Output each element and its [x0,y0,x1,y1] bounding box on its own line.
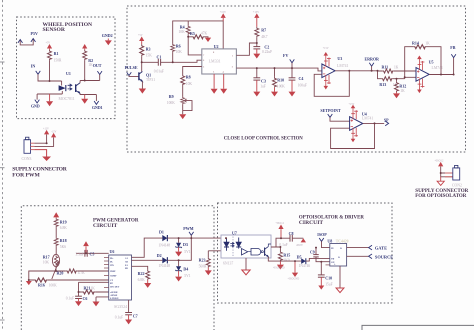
svg-text:C2: C2 [264,44,269,49]
svg-text:TIP31: TIP31 [146,78,155,82]
power +ISO12 [435,159,444,166]
zener D4 [175,260,191,281]
svg-text:R11: R11 [382,64,389,69]
resistor R12 [393,81,406,98]
svg-text:1K0: 1K0 [283,259,289,263]
ground open triangle [437,177,444,186]
resistor R20 [57,269,109,275]
svg-text:R8: R8 [186,74,191,79]
svg-text:R16: R16 [38,283,45,288]
svg-text:VIN: VIN [110,265,114,267]
svg-text:GND1: GND1 [92,106,103,110]
wire pot bottom junction [29,267,66,281]
svg-text:FV: FV [283,53,288,58]
svg-text:C6: C6 [83,296,88,301]
ground under C2 [253,49,260,59]
svg-text:1N4746: 1N4746 [299,264,311,268]
wire collector rail [80,60,100,82]
zener D3 [175,238,191,256]
svg-text:R23: R23 [199,258,206,263]
svg-text:0.1uF: 0.1uF [66,297,74,301]
top rail +15V left [173,21,224,49]
ground big red [42,157,51,162]
svg-text:MOC7811: MOC7811 [59,97,75,101]
svg-text:U7: U7 [232,231,237,236]
optocoupler U1 [59,71,81,101]
svg-text:U1: U1 [66,71,71,76]
svg-text:FOR OPTOISOLATOR: FOR OPTOISOLATOR [415,194,466,199]
svg-text:-12V: -12V [51,130,56,133]
page border [0,0,5,330]
capacitor C4 [289,68,307,96]
svg-text:R10: R10 [277,77,284,82]
svg-text:U6: U6 [110,249,115,254]
svg-text:10K: 10K [43,261,50,265]
svg-text:R9: R9 [169,94,174,99]
svg-text:LM741: LM741 [432,66,443,70]
title block corner [362,325,474,330]
resistor R16 [34,278,109,288]
svg-text:15K: 15K [146,54,153,58]
svg-text:R13: R13 [379,82,386,87]
svg-text:SENSOR: SENSOR [43,27,66,33]
node PULSE [125,65,138,76]
op-amp U4 [349,103,374,143]
svg-text:GATE: GATE [375,246,387,251]
svg-text:COMP: COMP [110,276,117,278]
power +5V above R1 [46,41,53,49]
svg-text:5V1: 5V1 [184,274,190,278]
svg-text:+ISOGND: +ISOGND [288,278,300,281]
svg-text:SOURCE: SOURCE [375,254,393,259]
power +12V [43,127,49,134]
svg-text:LM741: LM741 [337,64,348,68]
svg-text:CLOSE LOOP CONTROL SECTION: CLOSE LOOP CONTROL SECTION [224,136,303,142]
capacitor C9 [310,248,330,262]
svg-text:C1: C1 [157,54,162,59]
resistor R5 [190,31,207,39]
svg-text:TC4420: TC4420 [336,239,349,243]
capacitor C10 [318,262,333,290]
resistor R2 [83,50,93,67]
op-amp U5 [416,56,443,94]
svg-text:+15V: +15V [253,11,259,14]
wire R21 column [79,282,109,296]
ground +ISOGND under D5 row [288,261,300,281]
svg-text:SG3524: SG3524 [114,304,127,309]
node OUT [93,63,102,75]
svg-text:0.01uF: 0.01uF [154,70,164,74]
svg-text:FB: FB [450,45,455,50]
power -12V [51,130,56,137]
svg-text:R4: R4 [180,25,185,30]
resistor R7 [255,27,268,39]
wire pin2 to -12V [34,138,53,147]
optocoupler U7 6N137 [221,231,271,266]
power +ISO12 above C8 [275,222,284,238]
svg-text:OUT: OUT [93,63,102,68]
power +15V above R7 [253,11,260,27]
svg-text:CON2: CON2 [452,183,462,187]
svg-text:1uF: 1uF [260,84,266,88]
svg-text:+5V: +5V [46,41,51,44]
svg-text:3.3nF: 3.3nF [76,252,84,256]
transistor Q1 [139,72,155,82]
resistor R21 [82,285,95,294]
svg-text:150R: 150R [54,59,62,63]
svg-text:ISOP: ISOP [317,232,327,237]
ground red under LED [46,94,53,106]
ground open under U7 [242,258,250,275]
wire R3 to Q1 collector and C1 tap [129,56,158,76]
box: wheel position sensor [17,17,116,119]
node ERROR [365,56,380,71]
feedback wire U4 [331,123,385,148]
wire junction dots [28,36,455,293]
power +15V above U2 [220,11,226,21]
svg-text:R18: R18 [60,238,67,243]
svg-text:R20: R20 [57,270,64,275]
svg-text:U8: U8 [327,238,332,243]
connector CON2 [452,165,462,187]
ground open under U8 [336,266,344,293]
svg-text:1N4148: 1N4148 [159,243,171,247]
svg-text:SETPOINT: SETPOINT [320,108,341,113]
diode D1 [159,229,227,247]
resistor R10 [271,68,285,96]
resistor R22 [138,270,152,288]
capacitor C7 [115,300,138,324]
ground stub under U6 shutdown pin [93,297,109,307]
svg-text:C3: C3 [261,78,266,83]
wire U7 output to D5 row [268,257,301,261]
resistor R6 [171,44,183,55]
svg-text:ERROR: ERROR [365,56,380,61]
svg-text:IN-: IN- [110,262,113,264]
capacitor C2 [253,44,272,54]
svg-text:⊥: ⊥ [334,263,336,266]
capacitor C5 [76,250,109,257]
node SOURCE [369,254,394,259]
svg-text:+15V: +15V [349,103,355,106]
wire pin3 to ground [34,150,46,157]
svg-text:+SENSE: +SENSE [110,292,118,294]
resistor R4 [179,25,191,35]
svg-text:4.7K: 4.7K [78,271,85,275]
svg-text:D5: D5 [297,255,302,260]
svg-text:100K: 100K [277,84,285,88]
wire U6 outputs to diode rows [132,238,163,270]
svg-text:R14: R14 [412,41,419,46]
svg-text:S-TDWN: S-TDWN [110,298,119,300]
node ISOP [317,232,330,247]
svg-text:560R: 560R [199,265,207,269]
resistor R13 [378,71,405,87]
resistor R1 [48,50,62,63]
svg-text:GND2: GND2 [102,33,113,38]
svg-text:+ISOGND: +ISOGND [273,267,285,270]
svg-text:1N4148: 1N4148 [159,264,171,268]
resistor R18 [54,237,66,249]
svg-text:5V1: 5V1 [184,250,190,254]
svg-text:GND: GND [31,104,40,108]
ground red after R5 [205,38,211,42]
box: close loop control section [127,6,466,152]
resistor R14 [405,41,441,79]
svg-text:0.22uF: 0.22uF [262,50,272,54]
resistor R3 [140,44,152,57]
ground under Q1 [139,82,146,94]
svg-text:R22: R22 [138,271,145,276]
wire R18 to R17 [55,246,57,254]
svg-text:100uF: 100uF [298,83,307,87]
wire C1 to U2 pin2 [161,60,202,62]
svg-text:U5: U5 [429,59,434,64]
resistor R15 pull-up [273,251,290,270]
svg-text:1K: 1K [425,42,430,46]
resistor R19 [54,218,67,230]
svg-text:R7: R7 [261,28,266,33]
preset R9 [167,86,192,115]
IC U8 TC4420 [326,238,349,266]
svg-text:100K: 100K [49,284,57,288]
power +5V above R3 [138,34,144,44]
svg-text:PULSE: PULSE [125,65,138,70]
svg-text:LM331: LM331 [209,59,221,64]
connector CON3 [22,137,35,161]
grounds under U2 [211,74,228,94]
svg-text:1K: 1K [394,65,399,69]
power +5V above R2 [82,44,87,50]
power +12V above C5 [83,241,89,253]
power +12V above R19 [53,212,59,218]
svg-text:6N137: 6N137 [223,261,233,265]
node SP [384,118,389,126]
resistor R23 [199,251,226,275]
node PWM [183,226,193,238]
svg-text:C5: C5 [90,251,95,256]
ground red left [26,281,32,285]
wire emitter rail [80,94,96,101]
node FB [429,45,456,74]
svg-text:C10: C10 [325,276,332,281]
ground terminal GND1 [92,101,103,110]
svg-text:C7: C7 [133,313,138,318]
svg-text:R1: R1 [54,51,59,56]
node IN [31,63,41,74]
svg-text:450V: 450V [296,243,304,247]
box: pwm generator circuit [21,206,214,330]
svg-text:D4: D4 [183,267,188,272]
wire U8 to SOURCE [347,255,369,257]
wire R6 down to C1 rail [172,52,174,62]
svg-text:+ISO12: +ISO12 [275,222,284,225]
svg-text:O: O [338,257,340,259]
svg-text:D1: D1 [159,229,164,234]
svg-text:R19: R19 [60,219,67,224]
svg-text:R12: R12 [399,84,406,89]
ground terminal GND [31,100,40,109]
wire FV main rail [236,68,322,71]
svg-text:CIRCUIT: CIRCUIT [299,220,324,226]
svg-text:IN: IN [31,63,36,68]
wire R7 to U2 right pin [236,37,256,55]
svg-text:U2: U2 [214,44,219,49]
svg-text:P5V: P5V [31,31,38,36]
wire U8 to GATE [347,247,369,249]
svg-text:10K: 10K [179,30,186,34]
svg-text:OSC OUT: OSC OUT [110,287,120,289]
svg-text:U3: U3 [337,56,342,61]
svg-text:6.8K: 6.8K [60,226,67,230]
svg-text:R5: R5 [190,31,195,36]
svg-text:-SENSE: -SENSE [110,295,118,297]
svg-text:100K: 100K [167,101,175,105]
svg-text:R6: R6 [176,44,181,49]
power terminal P5V [18,31,38,45]
svg-text:LM741: LM741 [362,117,373,121]
svg-text:1K: 1K [400,89,405,93]
svg-text:FOR PWM: FOR PWM [12,173,40,179]
svg-text:CIRCUIT: CIRCUIT [93,223,118,229]
wire to connector [441,167,453,177]
svg-text:C8: C8 [289,231,294,236]
svg-text:+15V: +15V [323,47,329,50]
wire IN to LED anode [38,60,62,81]
svg-text:+ISO12: +ISO12 [435,159,444,162]
svg-text:4K7: 4K7 [261,35,267,39]
ground red under emitter [81,95,88,104]
capacitor C8 [271,231,306,251]
svg-text:D3: D3 [183,242,188,247]
svg-text:EA: EA [125,264,128,267]
svg-text:15uF: 15uF [325,283,332,287]
svg-text:R21: R21 [84,285,91,290]
svg-text:VREF: VREF [110,271,116,273]
svg-text:R17: R17 [43,254,50,259]
svg-text:6.8K: 6.8K [138,278,145,282]
wire cathode to GND [37,94,62,100]
op-amp U3 [322,47,349,89]
svg-text:CA: CA [125,257,129,260]
capacitor C1 [154,54,164,73]
svg-text:R15: R15 [283,252,290,257]
svg-text:10K: 10K [176,50,183,54]
svg-text:C9: C9 [310,251,315,255]
wire R4 R5 junction to U2 pin1 [188,35,208,55]
svg-text:IN: IN [331,248,334,250]
feedback wire U3 [314,71,377,97]
resistor R11 [378,64,417,73]
svg-text:C4: C4 [299,76,304,81]
svg-text:5K6: 5K6 [60,245,66,249]
svg-text:10K: 10K [186,82,193,86]
node FV [283,53,294,68]
capacitor C6 [66,296,88,306]
svg-text:1K: 1K [91,286,96,290]
resistor R8 [181,67,202,86]
wire R19 to R18 [55,227,57,237]
node SETPOINT [320,108,349,121]
diode D5 [297,255,330,269]
svg-text:VD: VD [331,259,335,261]
wire pin1 to +12V [34,135,46,144]
svg-text:PWM: PWM [183,226,193,231]
svg-text:+15V: +15V [220,11,226,14]
svg-text:+5V: +5V [138,34,143,37]
IC U2 LM331 [202,44,237,74]
ground under R9 [179,114,186,119]
svg-text:0.1uF: 0.1uF [115,315,123,319]
diode D2 [157,238,192,268]
svg-text:D2: D2 [157,253,162,258]
node GATE [369,245,387,250]
capacitor C3 [253,68,266,96]
svg-text:R3: R3 [146,46,151,51]
IC U6 SG3524 [104,249,132,309]
potentiometer R17 [43,254,60,279]
svg-text:+12V: +12V [43,127,49,130]
svg-text:47K: 47K [201,32,208,36]
svg-text:O: O [340,248,342,250]
ground GND2 top right [102,33,113,45]
box: optoisolator and driver circuit [218,203,393,303]
svg-text:CON3: CON3 [22,157,32,161]
